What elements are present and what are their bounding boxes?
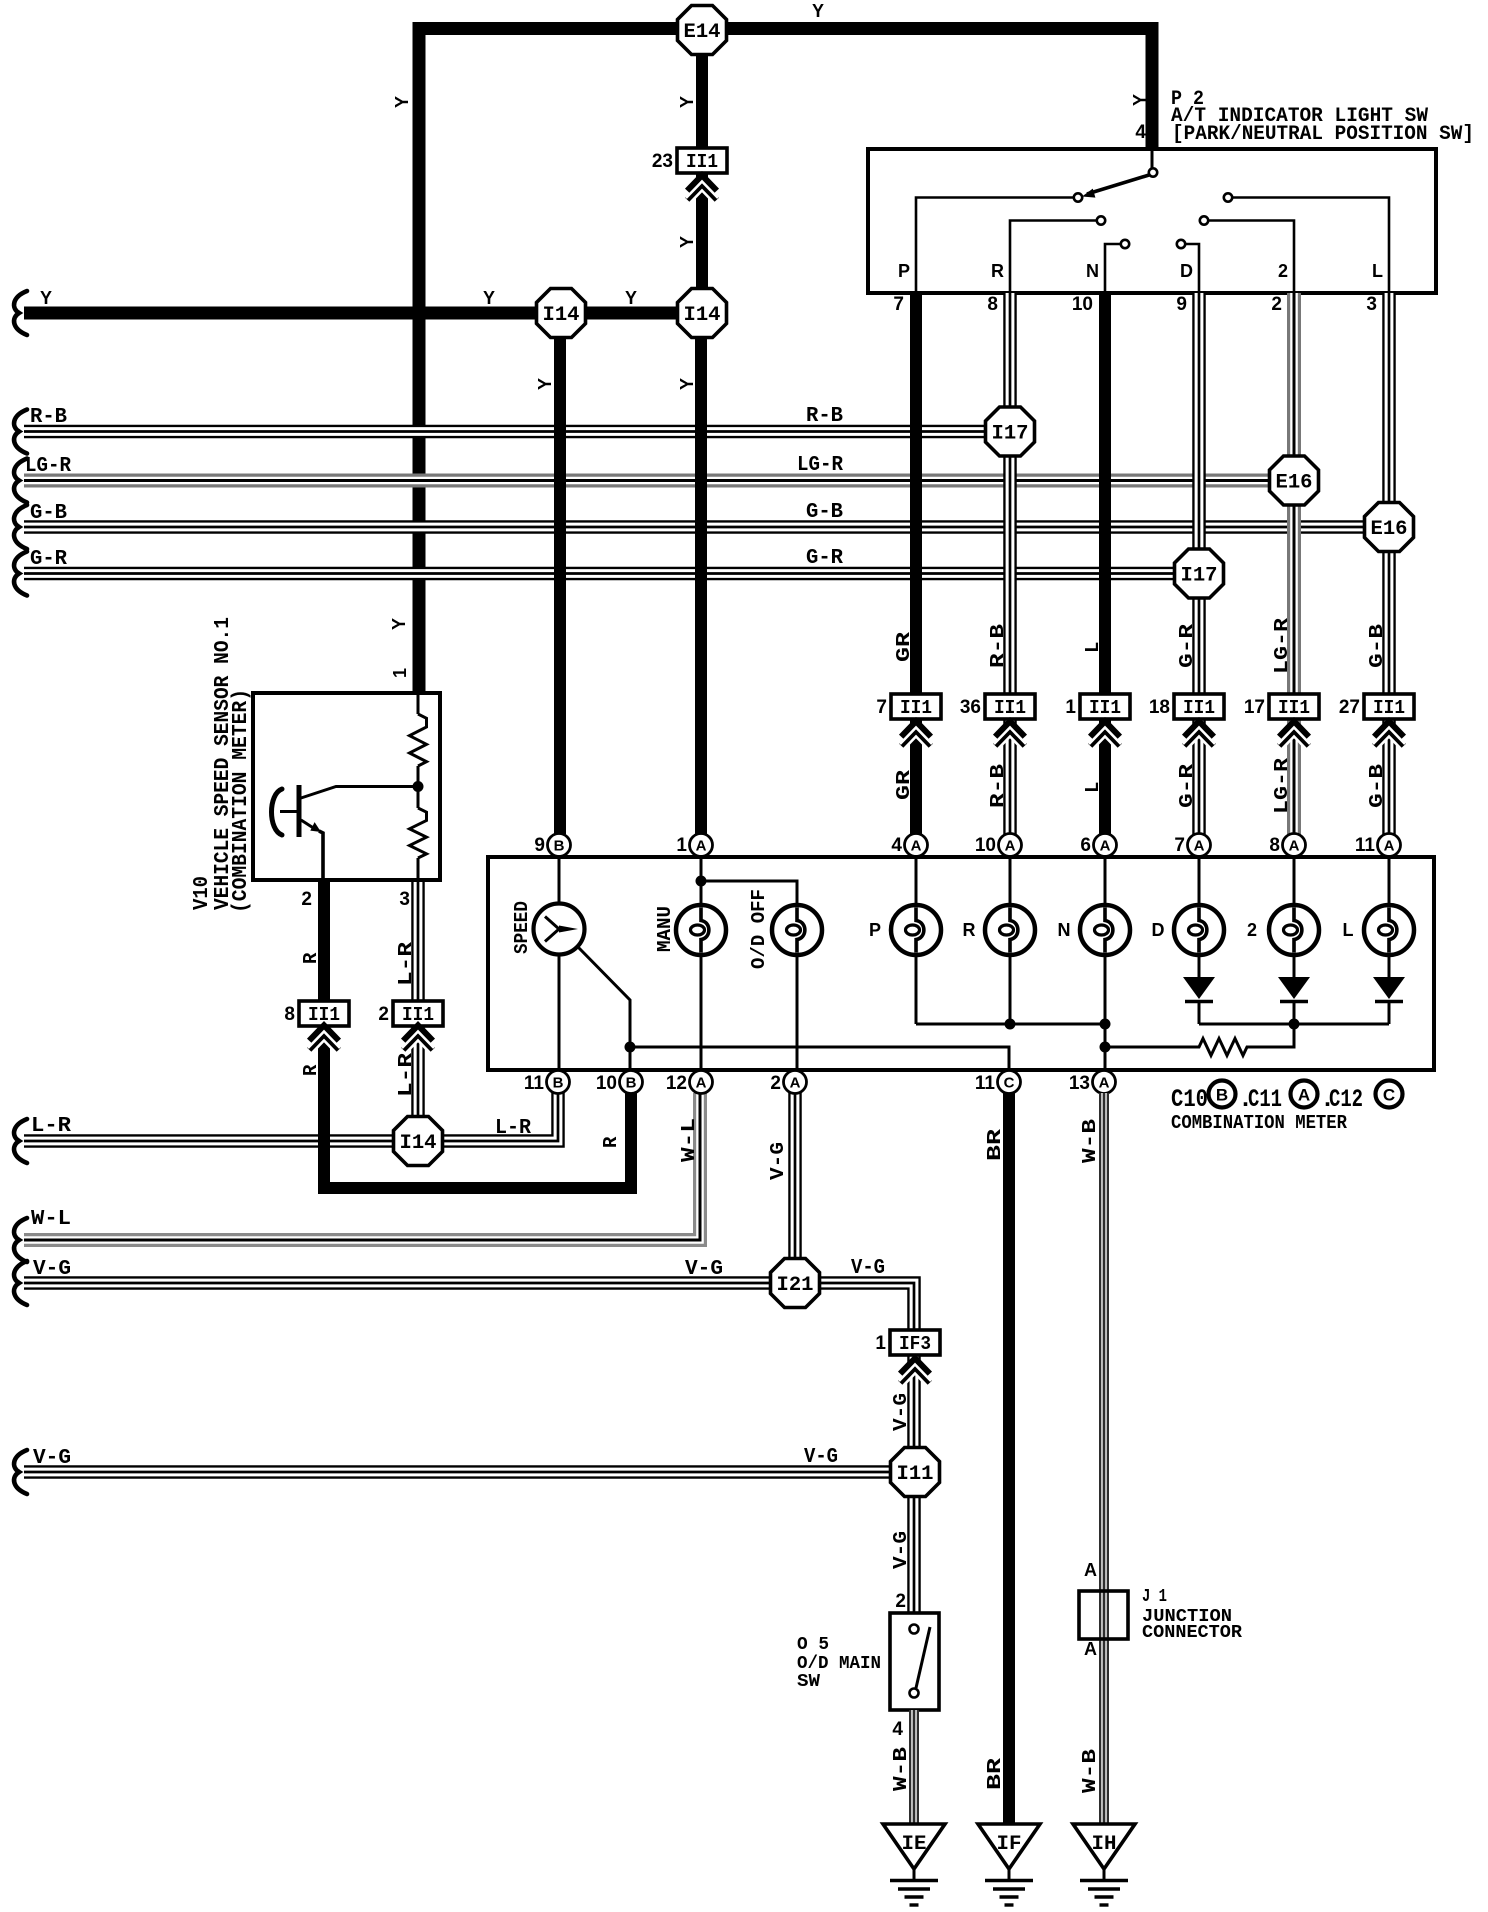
svg-text:W-B: W-B	[890, 1747, 912, 1791]
node pin 6 A meter	[1094, 834, 1117, 857]
connector II1 pin 7 box	[891, 694, 941, 719]
svg-text:R: R	[600, 1136, 622, 1148]
switch contact 2 circle	[1200, 216, 1208, 224]
wire P2 pivot lead	[1151, 151, 1154, 168]
svg-text:11: 11	[975, 1073, 996, 1094]
lamp MANU	[676, 905, 726, 955]
svg-text:R: R	[300, 1064, 322, 1076]
svg-text:LG-R: LG-R	[25, 455, 71, 478]
svg-text:R-B: R-B	[987, 624, 1009, 668]
svg-text:Y: Y	[389, 618, 409, 630]
svg-text:3: 3	[399, 889, 410, 910]
connector octagon I17 on G-R bus	[1175, 549, 1224, 598]
wire L diode to bus	[1388, 1001, 1391, 1024]
svg-text:Y: Y	[392, 96, 412, 108]
wire G-R bus	[24, 567, 1199, 581]
connector octagon I14 left	[537, 289, 586, 338]
svg-text:Y: Y	[535, 378, 555, 390]
node pin 7 A meter	[1188, 834, 1211, 857]
svg-text:G-R: G-R	[1176, 623, 1198, 668]
svg-text:V-G: V-G	[33, 1258, 71, 1281]
svg-text:N: N	[1086, 261, 1099, 281]
switch contact P circle	[1074, 193, 1082, 201]
diode L	[1373, 977, 1405, 999]
svg-text:I14: I14	[543, 304, 580, 327]
svg-text:BR: BR	[984, 1128, 1006, 1161]
svg-text:8: 8	[987, 294, 998, 315]
svg-text:P: P	[869, 920, 881, 940]
node pin 11 B meter bottom	[547, 1071, 570, 1094]
svg-text:G-B: G-B	[30, 502, 67, 525]
svg-text:11: 11	[1355, 835, 1376, 856]
node pin 12 A meter bottom	[690, 1071, 713, 1094]
node pin 10 B meter bottom	[620, 1071, 643, 1094]
combination meter box outline	[488, 857, 1434, 1070]
arrow chevron II1 18	[1185, 722, 1214, 737]
svg-text:J 1: J 1	[1142, 1587, 1167, 1607]
switch arm with arrowhead	[1087, 175, 1149, 194]
lamp R	[985, 905, 1035, 955]
svg-text:II1: II1	[994, 697, 1026, 719]
svg-text:LG-R: LG-R	[797, 454, 843, 477]
node pin 9 B meter	[548, 834, 571, 857]
svg-text:B: B	[554, 838, 565, 855]
svg-text:10: 10	[1072, 294, 1093, 315]
svg-text:L: L	[1082, 782, 1104, 793]
svg-text:IH: IH	[1092, 1833, 1117, 1856]
svg-text:I17: I17	[992, 423, 1029, 446]
svg-text:Y: Y	[625, 288, 637, 308]
wire speed gauge diagonal tap	[577, 946, 630, 1047]
svg-text:[PARK/NEUTRAL POSITION SW]: [PARK/NEUTRAL POSITION SW]	[1172, 123, 1474, 146]
svg-text:(COMBINATION METER): (COMBINATION METER)	[230, 689, 253, 913]
wire P lamp bottom lead	[915, 954, 918, 1025]
svg-text:A: A	[696, 1075, 707, 1092]
wire W-B from O/D switch to ground IE	[909, 1710, 919, 1824]
arrow chevron II1 36	[996, 722, 1025, 737]
svg-text:27: 27	[1339, 697, 1360, 718]
svg-text:A: A	[696, 838, 707, 855]
svg-text:B: B	[626, 1075, 637, 1092]
svg-text:2: 2	[895, 1591, 906, 1612]
svg-text:V10: V10	[191, 876, 214, 910]
svg-text:N: N	[1058, 920, 1071, 940]
svg-text:GR: GR	[893, 769, 915, 800]
svg-text:LG-R: LG-R	[1271, 617, 1293, 674]
svg-text:SPEED: SPEED	[511, 901, 533, 954]
lamp D	[1174, 905, 1224, 955]
transistor base tick	[280, 810, 297, 813]
wire contact D to pin D	[1185, 244, 1199, 291]
node junction dot MANU O/D feed	[696, 876, 707, 887]
wire L-R bus to meter pin 11B	[24, 1093, 558, 1141]
wire diode common bus	[1199, 1023, 1389, 1026]
wire L lamp top lead	[1388, 857, 1391, 906]
svg-text:C10: C10	[1171, 1085, 1208, 1114]
svg-text:G-B: G-B	[1366, 764, 1388, 808]
svg-text:36: 36	[960, 697, 981, 718]
wire L lamp to diode	[1388, 954, 1391, 978]
wire 2 lamp top lead	[1293, 857, 1296, 906]
svg-text:C11: C11	[1248, 1085, 1282, 1114]
wire LG-R bus hook	[14, 459, 27, 503]
svg-text:4: 4	[1135, 122, 1146, 143]
connector II1 pin 36 box	[985, 694, 1035, 719]
svg-text:L-R: L-R	[395, 941, 417, 986]
connector II1 pin 17 box	[1269, 694, 1319, 719]
svg-text:W-L: W-L	[31, 1208, 71, 1231]
wire LG-R bus	[24, 474, 1294, 488]
svg-text:A: A	[1084, 1560, 1097, 1580]
svg-text:A: A	[911, 838, 922, 855]
connector II1 pin 2 box	[393, 1001, 443, 1026]
svg-text:II1: II1	[1089, 697, 1121, 719]
svg-text:II1: II1	[1278, 697, 1310, 719]
svg-text:3: 3	[1366, 294, 1377, 315]
svg-text:10: 10	[596, 1073, 617, 1094]
svg-text:A: A	[1100, 838, 1111, 855]
svg-text:R-B: R-B	[30, 406, 67, 429]
svg-text:B: B	[1216, 1086, 1228, 1105]
wire R from V10 pin 2 to meter pin 10B	[324, 881, 631, 1188]
wire D lamp top lead	[1198, 857, 1201, 906]
svg-text:18: 18	[1149, 697, 1170, 718]
wire V-G bus 1 hook	[14, 1261, 27, 1305]
wire GR column P thick	[910, 293, 922, 834]
svg-text:C: C	[1383, 1086, 1395, 1105]
svg-text:E14: E14	[684, 21, 721, 44]
wire N lamp bottom lead to pin 13A	[1104, 954, 1107, 1071]
resistor R1 in V10	[417, 693, 420, 714]
svg-text:12: 12	[666, 1073, 687, 1094]
node pin 11 C meter bottom	[998, 1071, 1021, 1094]
svg-text:G-B: G-B	[806, 501, 843, 524]
wire R lamp bottom lead	[1009, 954, 1012, 1025]
wire Y from I14 left down to meter pin 9B	[554, 335, 566, 834]
svg-text:A: A	[1289, 838, 1300, 855]
ground IH	[1073, 1824, 1135, 1869]
svg-text:1: 1	[390, 668, 410, 678]
node dot R at bus	[1005, 1019, 1016, 1030]
wire contact P to pin P	[916, 198, 1074, 292]
wire Y from E14 down through II1 23 to I14	[696, 52, 708, 292]
svg-text:I11: I11	[897, 1463, 934, 1486]
wire L column N thick	[1099, 293, 1111, 834]
svg-text:L-R: L-R	[395, 1052, 417, 1097]
wire Y bus left hook	[14, 291, 27, 335]
transistor base bar	[297, 785, 302, 837]
svg-text:G-R: G-R	[1176, 763, 1198, 808]
svg-text:2: 2	[770, 1073, 781, 1094]
svg-text:7: 7	[876, 697, 887, 718]
wire Y top run with corners down to V10 and to P2 pin 4	[419, 29, 1152, 694]
svg-text:7: 7	[893, 294, 904, 315]
svg-text:A: A	[1194, 838, 1205, 855]
junction connector J1 box	[1079, 1591, 1128, 1639]
svg-text:A: A	[1298, 1086, 1310, 1105]
wire D lamp to diode	[1198, 954, 1201, 978]
node pin 10 A meter	[999, 834, 1022, 857]
connector box P2 A/T indicator light switch outline	[868, 149, 1436, 293]
wire contact R to pin R	[1010, 221, 1097, 292]
svg-text:G-B: G-B	[1366, 624, 1388, 668]
node pin 4 A meter	[905, 834, 928, 857]
lamp L	[1364, 905, 1414, 955]
svg-text:R: R	[991, 261, 1004, 281]
svg-text:V-G: V-G	[33, 1447, 71, 1470]
svg-text:V-G: V-G	[804, 1446, 838, 1469]
wire W-B from meter pin 13A through J1 to ground IH	[1099, 1093, 1109, 1824]
svg-text:Y: Y	[483, 288, 495, 308]
sensor box V10 outline	[253, 693, 440, 880]
svg-text:L: L	[1082, 642, 1104, 653]
diode D	[1183, 977, 1215, 999]
svg-text:L: L	[1343, 920, 1354, 940]
node dot N at resistor line	[1100, 1042, 1111, 1053]
svg-text:1: 1	[875, 1333, 886, 1354]
svg-text:II1: II1	[1373, 697, 1405, 719]
svg-text:W-B: W-B	[1079, 1749, 1101, 1793]
wire BR from meter pin 11C to ground IF	[1003, 1093, 1015, 1824]
connector octagon E16 on LG-R bus	[1270, 456, 1319, 505]
svg-text:D: D	[1180, 261, 1193, 281]
switch pivot contact circle	[1149, 168, 1157, 176]
svg-text:O 5: O 5	[797, 1635, 829, 1655]
node junction dot at 630 1047	[625, 1042, 636, 1053]
svg-text:V-G: V-G	[890, 1393, 912, 1431]
svg-text:L: L	[1372, 261, 1383, 281]
svg-text:L-R: L-R	[31, 1115, 71, 1138]
svg-text:MANU: MANU	[654, 906, 676, 952]
arrow chevron below II1 23	[688, 176, 717, 191]
svg-text:L-R: L-R	[495, 1117, 531, 1140]
svg-text:E16: E16	[1276, 472, 1313, 495]
svg-text:R-B: R-B	[806, 405, 843, 428]
svg-text:1: 1	[676, 835, 687, 856]
svg-text:Y: Y	[677, 378, 697, 390]
svg-text:4: 4	[892, 1719, 903, 1740]
wire MANU bottom lead to pin 12A	[700, 954, 703, 1071]
svg-text:23: 23	[652, 151, 673, 172]
connector IF3 pin 1 box	[890, 1330, 940, 1355]
transistor pickup coil arc	[272, 789, 283, 835]
svg-text:V-G: V-G	[851, 1257, 885, 1280]
wire R-B column R double	[1003, 293, 1017, 834]
svg-text:Y: Y	[1130, 94, 1150, 106]
node pin 11 A meter	[1378, 834, 1401, 857]
lamp 2	[1269, 905, 1319, 955]
svg-text:7: 7	[1174, 835, 1185, 856]
wire speed gauge bottom lead to pin 11B	[558, 955, 561, 1071]
svg-text:W-B: W-B	[1079, 1119, 1101, 1163]
svg-text:Y: Y	[40, 288, 52, 308]
connector octagon I17 on R-B bus	[986, 407, 1035, 456]
svg-text:E16: E16	[1371, 518, 1408, 541]
svg-text:IF: IF	[997, 1833, 1022, 1856]
node junction dot V10	[413, 781, 424, 792]
svg-text:A: A	[1099, 1075, 1110, 1092]
svg-text:V-G: V-G	[767, 1142, 789, 1180]
wire G-B column L double	[1382, 293, 1396, 834]
svg-text:G-R: G-R	[30, 548, 67, 571]
switch contact N circle	[1121, 240, 1129, 248]
wire O/D OFF bottom lead to pin 2A	[796, 954, 799, 1071]
wire from junction to meter pin 11C	[630, 1047, 1009, 1070]
switch contact D circle	[1177, 240, 1185, 248]
wire junction down to pin 10B	[629, 1047, 632, 1070]
switch box O5 O/D main switch	[890, 1613, 939, 1710]
wire V-G bus 1 through I21 down to O/D main switch	[24, 1283, 914, 1613]
transistor emitter lead with arrow	[301, 820, 315, 829]
switch contact L circle	[1224, 193, 1232, 201]
svg-text:Y: Y	[812, 1, 824, 21]
wire LG-R column 2 gray	[1287, 293, 1301, 834]
wire MANU top lead	[700, 857, 703, 906]
svg-text:13: 13	[1069, 1073, 1090, 1094]
svg-text:LG-R: LG-R	[1271, 757, 1293, 814]
resistor in meter	[1105, 1024, 1294, 1056]
node pin 8 A meter	[1283, 834, 1306, 857]
svg-text:A: A	[1384, 838, 1395, 855]
connector II1 pin 23 box	[677, 148, 727, 173]
connector octagon I14 on L-R bus	[394, 1117, 443, 1166]
arrow chevron IF3	[901, 1359, 930, 1374]
svg-text:Y: Y	[677, 96, 697, 108]
svg-text:C12: C12	[1329, 1085, 1363, 1114]
wire branch to O/D OFF lamp	[701, 881, 797, 906]
arrow chevron II1 17	[1280, 722, 1309, 737]
wire R lamp top lead	[1009, 857, 1012, 906]
svg-text:R-B: R-B	[987, 764, 1009, 808]
lamp N	[1080, 905, 1130, 955]
svg-text:R: R	[300, 952, 322, 964]
wire contact N to pin N	[1105, 244, 1121, 291]
svg-text:V-G: V-G	[685, 1258, 723, 1281]
svg-text:C: C	[1004, 1075, 1015, 1092]
wire contact L to pin L	[1232, 198, 1389, 292]
wire Y bus horizontal	[24, 307, 703, 320]
svg-text:W-L: W-L	[678, 1118, 700, 1162]
wire D diode to bus	[1198, 1001, 1201, 1024]
node pin 1 A meter	[690, 834, 713, 857]
svg-text:1: 1	[1065, 697, 1076, 718]
wire G-B bus hook	[14, 505, 27, 549]
node dot N at bus	[1100, 1019, 1111, 1030]
svg-text:II1: II1	[1183, 697, 1215, 719]
svg-text:10: 10	[975, 835, 996, 856]
wire P lamp top lead	[915, 857, 918, 906]
node dot diode bus at 1294	[1289, 1019, 1300, 1030]
svg-text:I17: I17	[1181, 565, 1218, 588]
arrow chevron II1 27	[1375, 722, 1404, 737]
lamp O/D OFF	[772, 905, 822, 955]
svg-text:IF3: IF3	[899, 1333, 931, 1355]
svg-text:I21: I21	[777, 1274, 814, 1297]
svg-text:2: 2	[301, 889, 312, 910]
arrow chevron II1 8	[310, 1026, 339, 1041]
svg-text:A: A	[1005, 838, 1016, 855]
lamp P	[891, 905, 941, 955]
svg-text:17: 17	[1244, 697, 1265, 718]
svg-text:G-R: G-R	[806, 547, 843, 570]
switch contact R circle	[1097, 216, 1105, 224]
wire V-G riser I21 to meter pin 2A	[788, 1093, 802, 1285]
wire V-G bus 2 hook	[14, 1450, 27, 1494]
svg-text:R: R	[963, 920, 976, 940]
svg-text:Y: Y	[677, 236, 697, 248]
svg-text:6: 6	[1080, 835, 1091, 856]
wire W-L bus hook	[14, 1218, 27, 1262]
svg-text:2: 2	[1247, 920, 1257, 940]
svg-text:COMBINATION METER: COMBINATION METER	[1171, 1112, 1348, 1134]
resistor R2 in V10	[410, 808, 427, 858]
arrow chevron II1 7	[902, 722, 931, 737]
wire speed gauge top lead	[558, 857, 561, 903]
svg-text:O/D OFF: O/D OFF	[748, 889, 770, 969]
wire V-G bus 2 to I11	[24, 1465, 915, 1479]
svg-text:A: A	[1084, 1639, 1097, 1659]
connector II1 pin 27 box	[1364, 694, 1414, 719]
svg-text:2: 2	[1271, 294, 1282, 315]
wire contact 2 to pin 2	[1208, 221, 1294, 292]
svg-text:BR: BR	[984, 1757, 1006, 1790]
svg-text:O/D MAIN: O/D MAIN	[797, 1654, 881, 1674]
connector II1 pin 8 box	[299, 1001, 349, 1026]
wire R-B bus hook	[14, 410, 27, 454]
svg-text:SW: SW	[797, 1672, 820, 1692]
svg-text:2: 2	[378, 1004, 389, 1025]
wire R-B bus	[24, 425, 1010, 439]
wire P R N common bus	[916, 1023, 1105, 1026]
svg-text:11: 11	[524, 1073, 545, 1094]
ground IE	[883, 1824, 945, 1869]
wire 2 diode to bus	[1293, 1001, 1296, 1024]
connector octagon I21 on V-G bus	[771, 1259, 820, 1308]
svg-text:V-G: V-G	[890, 1531, 912, 1569]
wire G-R bus hook	[14, 552, 27, 596]
connector octagon I14 right	[678, 289, 727, 338]
svg-text:9: 9	[534, 835, 545, 856]
wire L-R bus hook	[14, 1119, 27, 1163]
svg-text:IE: IE	[902, 1833, 927, 1856]
svg-text:9: 9	[1176, 294, 1187, 315]
wire L-R from V10 pin 3 down to I14	[411, 881, 425, 1141]
node pin 2 A meter bottom	[784, 1071, 807, 1094]
svg-text:B: B	[553, 1075, 564, 1092]
transistor collector lead	[301, 787, 418, 799]
wire G-R column D double	[1192, 293, 1206, 834]
wire Y from I14 right down to meter pin 1A	[695, 335, 707, 834]
svg-text:II1: II1	[686, 151, 718, 173]
svg-text:CONNECTOR: CONNECTOR	[1142, 1623, 1242, 1643]
svg-text:A: A	[790, 1075, 801, 1092]
connector II1 pin 1 box	[1080, 694, 1130, 719]
speedometer gauge SPEED	[534, 904, 585, 955]
svg-text:II1: II1	[900, 697, 932, 719]
arrow chevron II1 2	[404, 1026, 433, 1041]
wire G-B bus	[24, 520, 1389, 534]
wire N lamp top lead	[1104, 857, 1107, 906]
ground IF	[978, 1824, 1040, 1869]
arrow chevron II1 1	[1091, 722, 1120, 737]
connector octagon E14	[678, 6, 727, 55]
svg-text:8: 8	[284, 1004, 295, 1025]
node pin 13 A meter bottom	[1093, 1071, 1116, 1094]
svg-text:2: 2	[1278, 261, 1288, 281]
connector octagon I11 on V-G bus 2	[891, 1448, 940, 1497]
svg-text:I14: I14	[684, 304, 721, 327]
diode 2	[1278, 977, 1310, 999]
